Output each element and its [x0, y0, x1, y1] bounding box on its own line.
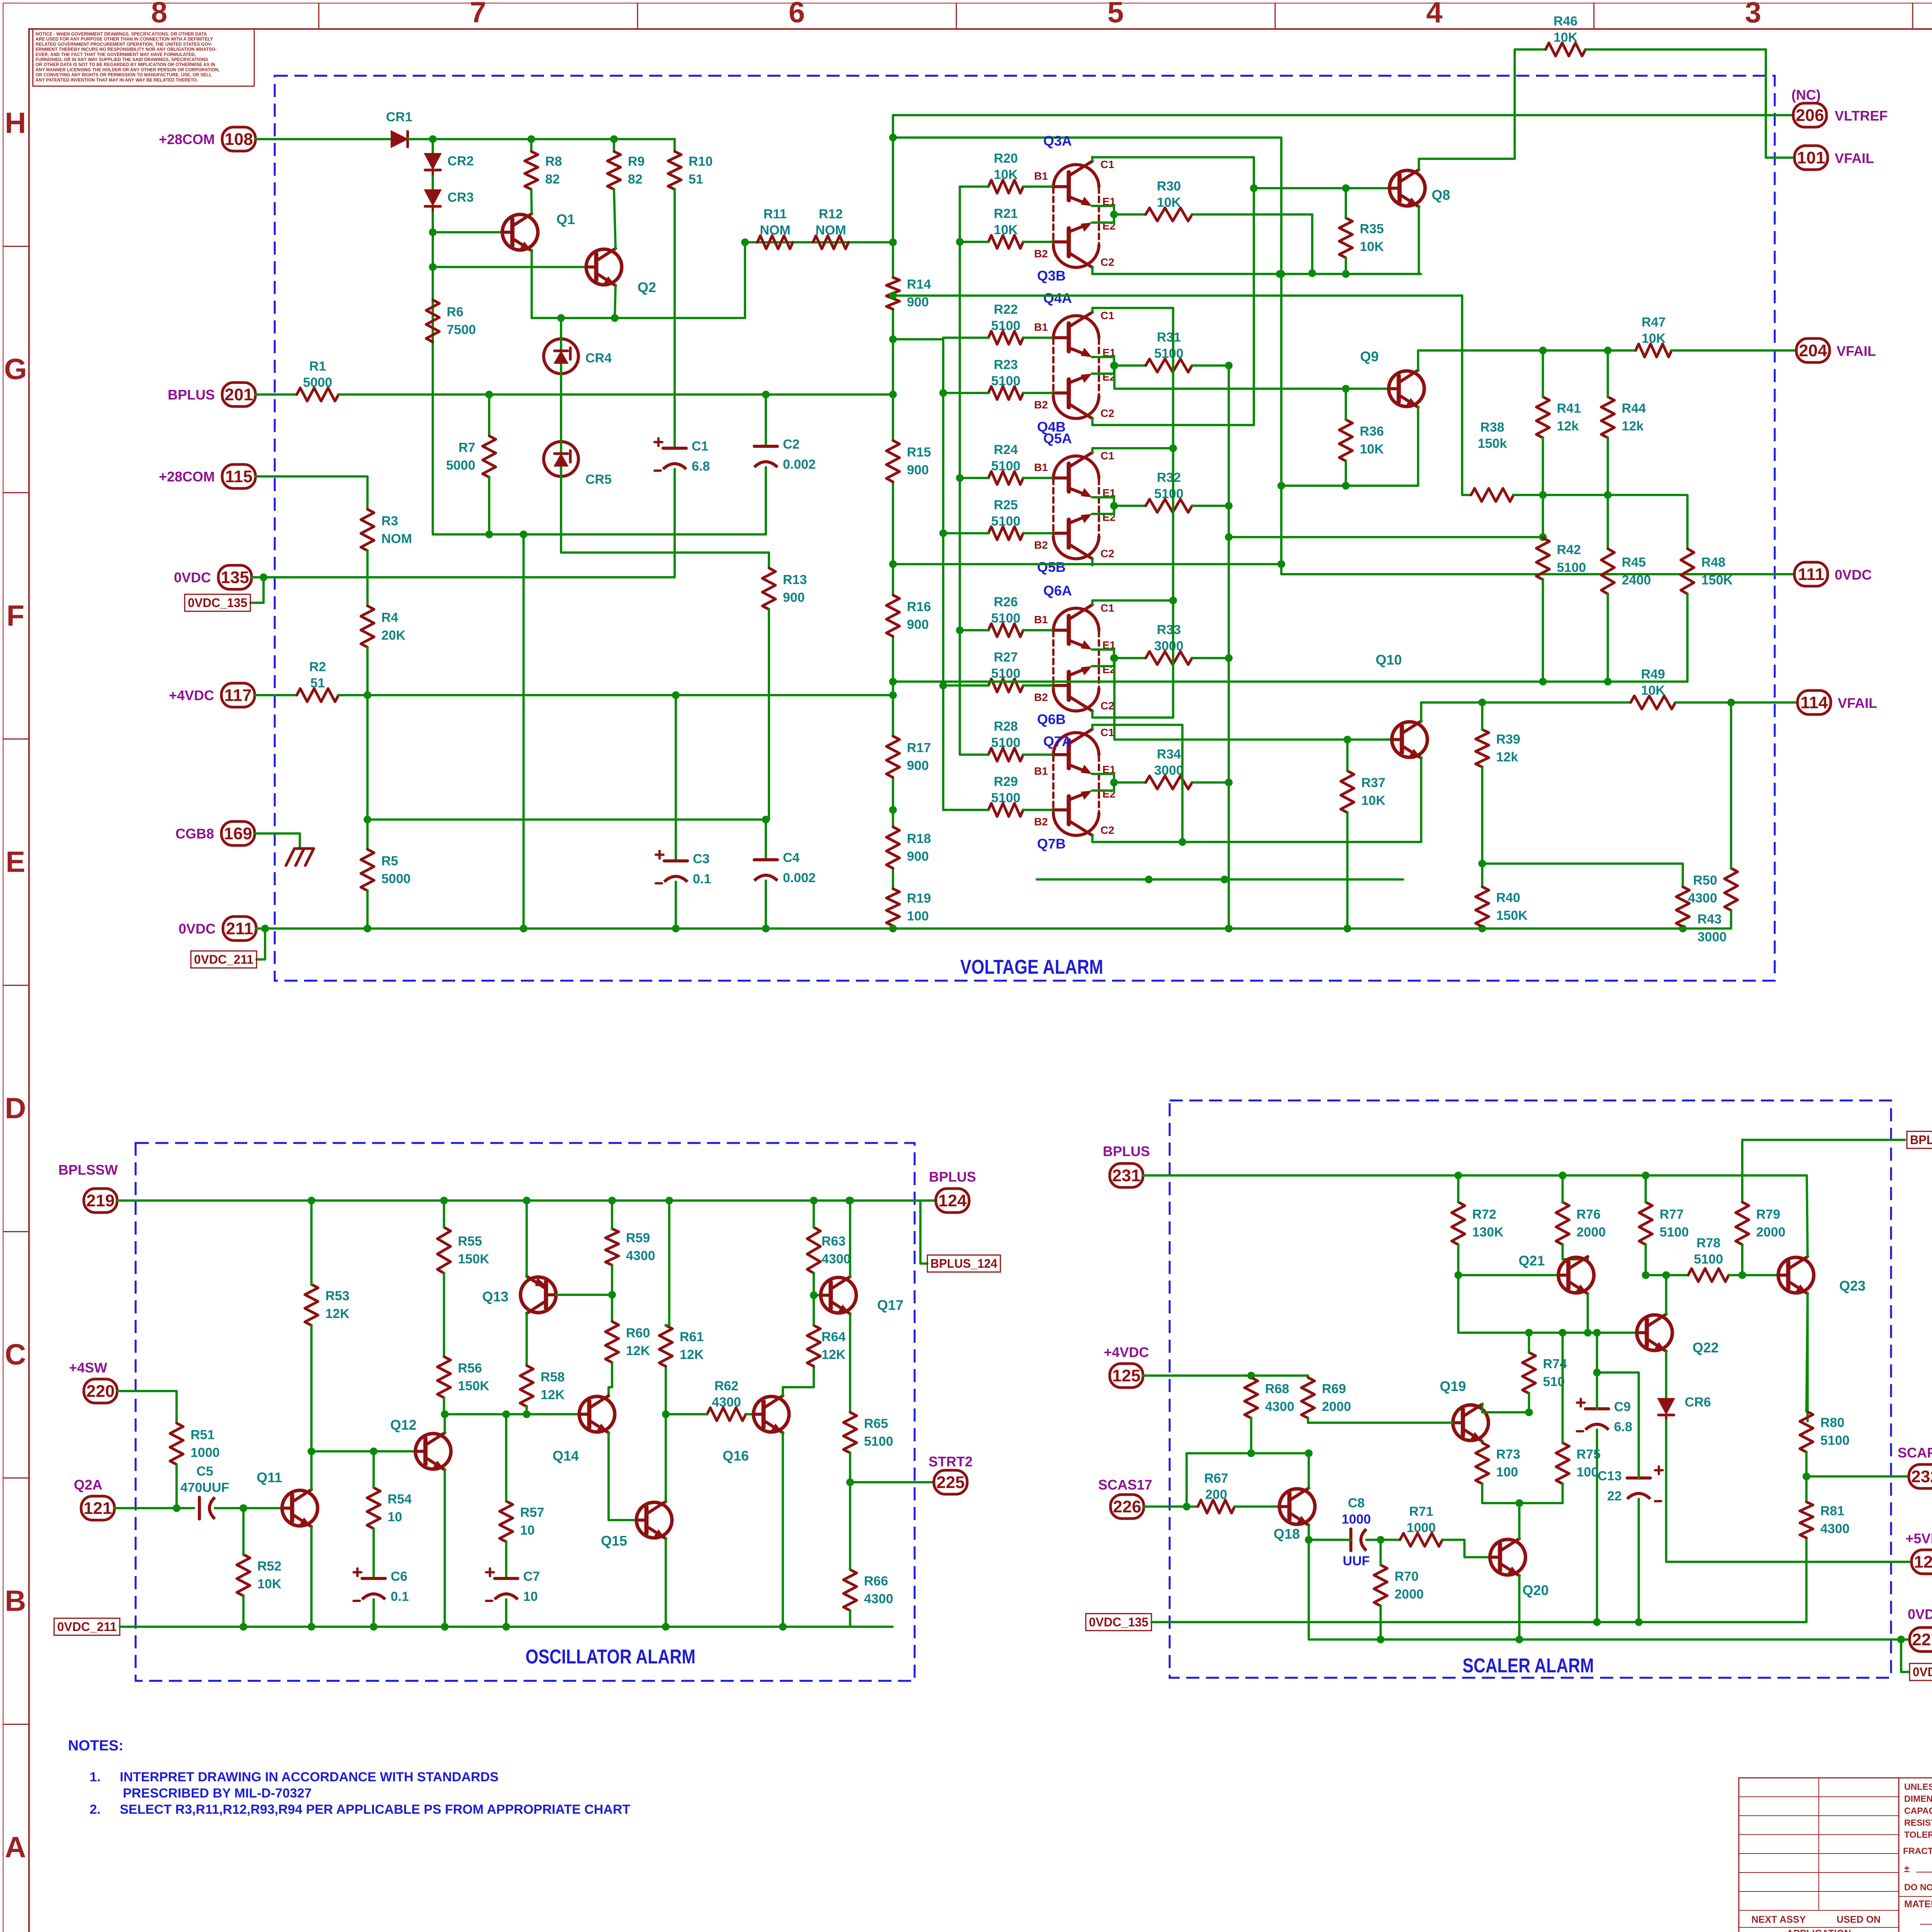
resistor R34 — [1146, 747, 1192, 789]
wire — [893, 338, 943, 340]
svg-text:R39: R39 — [1496, 732, 1520, 747]
junction — [364, 816, 371, 823]
svg-text:2000: 2000 — [1577, 1225, 1606, 1240]
wire — [1607, 350, 1609, 397]
transistor Q9 — [1360, 349, 1424, 407]
junction — [485, 531, 493, 538]
wire — [1023, 809, 1052, 811]
junction — [1454, 1271, 1462, 1279]
junction — [1277, 560, 1285, 568]
wire — [1345, 188, 1347, 218]
resistor R47 — [1636, 315, 1672, 357]
wire — [893, 136, 1281, 139]
connector pad 114 — [1798, 690, 1831, 714]
svg-text:OR CONVEYING ANY RIGHTS OR PER: OR CONVEYING ANY RIGHTS OR PERMISSION TO… — [36, 73, 212, 78]
wire — [1563, 1245, 1588, 1259]
svg-text:51: 51 — [310, 676, 325, 690]
svg-text:4300: 4300 — [1265, 1400, 1294, 1414]
svg-text:211: 211 — [226, 919, 253, 938]
junction — [502, 1410, 510, 1418]
svg-text:82: 82 — [545, 172, 560, 187]
svg-text:CR5: CR5 — [585, 472, 612, 487]
wire — [1023, 337, 1052, 339]
svg-text:101: 101 — [1797, 148, 1825, 167]
wire — [920, 1201, 927, 1264]
wire — [813, 1295, 815, 1325]
wire — [444, 1414, 446, 1433]
svg-text:B: B — [5, 1585, 26, 1617]
junction — [1344, 925, 1351, 932]
junction — [1525, 1329, 1533, 1337]
svg-text:C5: C5 — [196, 1464, 213, 1479]
wire — [444, 1470, 446, 1627]
junction — [810, 1197, 818, 1204]
svg-text:Q20: Q20 — [1522, 1582, 1549, 1598]
resistor R59 — [605, 1229, 655, 1265]
junction — [1247, 1372, 1255, 1379]
junction — [1604, 678, 1612, 685]
svg-text:Q2A: Q2A — [74, 1477, 102, 1493]
junction — [939, 389, 947, 397]
svg-text:BPLSSW: BPLSSW — [58, 1162, 118, 1178]
wire — [1114, 366, 1389, 389]
svg-text:12K: 12K — [680, 1347, 704, 1362]
connector pad 204 — [1796, 338, 1830, 362]
svg-text:12K: 12K — [626, 1344, 650, 1358]
svg-text:2000: 2000 — [1395, 1587, 1424, 1602]
svg-text:Q22: Q22 — [1692, 1340, 1719, 1355]
resistor R39 — [1476, 730, 1520, 767]
svg-text:5000: 5000 — [446, 458, 475, 473]
resistor R81 — [1800, 1502, 1850, 1538]
wire — [1587, 1294, 1589, 1333]
wire — [1092, 506, 1114, 514]
wire — [1308, 1453, 1310, 1488]
svg-text:R17: R17 — [907, 741, 931, 755]
wire — [1151, 1621, 1806, 1623]
svg-text:Q21: Q21 — [1519, 1253, 1545, 1269]
svg-text:R68: R68 — [1265, 1382, 1289, 1396]
junction — [889, 292, 897, 299]
resistor R38 — [1471, 420, 1514, 502]
zener diode CR5 — [544, 442, 612, 487]
wire — [960, 477, 988, 479]
svg-text:Q13: Q13 — [482, 1289, 509, 1304]
wire — [1666, 1420, 1911, 1562]
junction — [429, 135, 437, 143]
svg-text:232: 232 — [1911, 1467, 1932, 1486]
svg-text:10K: 10K — [994, 223, 1018, 237]
resistor R11 — [757, 207, 793, 249]
svg-text:R30: R30 — [1157, 179, 1181, 194]
wire — [310, 1201, 313, 1284]
wire — [746, 1413, 753, 1415]
resistor R51 — [170, 1423, 220, 1464]
wire — [1192, 781, 1229, 784]
wire — [1420, 757, 1422, 842]
junction — [1593, 1369, 1601, 1376]
svg-text:C2: C2 — [1100, 700, 1114, 712]
svg-text:INTERPRET DRAWING IN ACCORDANC: INTERPRET DRAWING IN ACCORDANCE WITH STA… — [120, 1770, 498, 1784]
junction — [779, 1623, 787, 1631]
wire — [408, 138, 675, 140]
svg-text:5100: 5100 — [1154, 486, 1184, 501]
capacitor C13 — [1598, 1469, 1650, 1503]
svg-text:Q3B: Q3B — [1037, 268, 1066, 284]
svg-text:Q6A: Q6A — [1043, 583, 1072, 599]
junction — [1247, 1449, 1255, 1457]
svg-text:C8: C8 — [1348, 1496, 1364, 1510]
transistor Q7A/Q7B dual — [1034, 726, 1116, 852]
resistor R77 — [1639, 1202, 1689, 1245]
diode CR6 — [1658, 1395, 1711, 1420]
wire — [1638, 1499, 1640, 1622]
resistor R56 — [437, 1357, 490, 1398]
junction — [1525, 1408, 1533, 1416]
connector pad 125 — [1110, 1364, 1143, 1388]
resistor R60 — [605, 1321, 650, 1362]
svg-text:1000: 1000 — [1342, 1512, 1371, 1527]
svg-text:900: 900 — [907, 849, 929, 864]
svg-text:219: 219 — [86, 1191, 114, 1210]
resistor R46 — [1546, 14, 1585, 56]
transistor Q3A/Q3B dual — [1034, 133, 1116, 284]
resistor R27 — [988, 650, 1023, 692]
wire — [1462, 296, 1471, 495]
svg-text:R31: R31 — [1157, 330, 1181, 345]
junction — [741, 238, 749, 246]
svg-text:Q15: Q15 — [601, 1533, 627, 1549]
svg-text:20K: 20K — [381, 628, 406, 643]
svg-text:R21: R21 — [994, 206, 1018, 221]
wire — [1023, 753, 1052, 756]
wire — [673, 139, 676, 151]
wire — [372, 1599, 375, 1627]
svg-text:5100: 5100 — [991, 735, 1020, 750]
junction — [1145, 876, 1153, 883]
wire — [1665, 1275, 1667, 1314]
wire — [1092, 774, 1114, 782]
junction — [520, 531, 527, 538]
junction — [364, 691, 371, 699]
transistor Q19 — [1440, 1378, 1488, 1441]
wire — [673, 189, 676, 448]
svg-text:USED ON: USED ON — [1837, 1914, 1881, 1925]
junction — [260, 573, 267, 581]
wire — [1806, 1294, 1809, 1421]
wire — [893, 680, 1687, 683]
wire — [1528, 1393, 1530, 1412]
connector pad 211 — [179, 917, 256, 940]
svg-text:10K: 10K — [1157, 195, 1181, 210]
junction — [1604, 347, 1612, 354]
junction — [1478, 925, 1486, 932]
svg-text:0VDC_211: 0VDC_211 — [194, 952, 253, 966]
svg-text:R23: R23 — [994, 357, 1018, 372]
resistor R23 — [988, 357, 1023, 400]
VOLTAGE ALARM dashed box — [275, 76, 1775, 981]
svg-text:4300: 4300 — [626, 1248, 655, 1263]
wire — [1482, 1484, 1563, 1503]
wire — [242, 1508, 245, 1554]
svg-text:(NC): (NC) — [1791, 87, 1821, 103]
wire — [849, 1453, 851, 1482]
wire — [1091, 711, 1094, 718]
junction — [1179, 838, 1186, 846]
wire — [1309, 1539, 1351, 1541]
svg-text:900: 900 — [907, 295, 929, 310]
svg-text:EVER; AND THE FACT THAT THE GO: EVER; AND THE FACT THAT THE GOVERNMENT M… — [36, 53, 196, 57]
junction — [665, 1197, 673, 1204]
svg-text:R22: R22 — [994, 302, 1018, 317]
svg-text:R10: R10 — [689, 154, 713, 169]
svg-text:R57: R57 — [520, 1505, 544, 1520]
svg-text:R3: R3 — [381, 514, 398, 529]
svg-text:Q5A: Q5A — [1043, 430, 1072, 446]
wire — [1092, 307, 1173, 309]
wire — [615, 286, 616, 318]
svg-text:D: D — [5, 1092, 26, 1125]
wire — [1023, 241, 1052, 243]
wire — [1518, 1503, 1520, 1539]
svg-text:R75: R75 — [1577, 1447, 1600, 1462]
svg-text:R62: R62 — [714, 1379, 738, 1393]
connector pad 117 — [169, 683, 255, 707]
svg-text:R77: R77 — [1660, 1207, 1684, 1222]
resistor R52 — [237, 1554, 282, 1596]
svg-text:12K: 12K — [821, 1347, 846, 1362]
junction — [1515, 1499, 1523, 1507]
wire — [765, 881, 767, 929]
wire — [1561, 1333, 1564, 1443]
svg-text:201: 201 — [224, 385, 253, 404]
junction — [1679, 925, 1687, 932]
junction — [308, 1447, 315, 1455]
svg-text:121: 121 — [83, 1499, 112, 1518]
svg-text:4300: 4300 — [864, 1592, 893, 1606]
svg-text:NOM: NOM — [815, 223, 846, 238]
wire — [1675, 701, 1797, 704]
SCALER ALARM dashed box — [1170, 1100, 1891, 1678]
svg-text:R18: R18 — [907, 832, 931, 846]
wire — [960, 187, 988, 755]
wire — [257, 929, 265, 959]
wire — [1481, 927, 1483, 929]
junction — [1277, 482, 1285, 490]
svg-text:+4SW: +4SW — [69, 1360, 107, 1376]
junction — [1225, 533, 1233, 541]
junction — [1183, 1503, 1190, 1510]
svg-text:10K: 10K — [1361, 793, 1386, 808]
svg-text:R73: R73 — [1496, 1447, 1520, 1462]
svg-text:+28COM: +28COM — [159, 469, 215, 485]
junction — [846, 1197, 854, 1204]
junction — [429, 228, 437, 236]
resistor R74 — [1522, 1352, 1567, 1393]
wire — [1514, 495, 1687, 549]
svg-text:CAPACITOR VALUES ARE IN uF: CAPACITOR VALUES ARE IN uF — [1904, 1806, 1932, 1816]
resistor R70 — [1374, 1565, 1424, 1606]
junction — [308, 1197, 315, 1204]
wire — [1528, 1333, 1530, 1352]
junction — [429, 263, 437, 271]
resistor R25 — [988, 498, 1023, 540]
svg-text:200: 200 — [1205, 1487, 1227, 1502]
svg-text:10: 10 — [523, 1589, 538, 1604]
svg-text:150k: 150k — [1478, 436, 1507, 451]
svg-text:C7: C7 — [523, 1569, 540, 1584]
junction — [1277, 270, 1285, 278]
wire — [1114, 213, 1146, 216]
wire — [892, 482, 894, 595]
resistor R49 — [1631, 667, 1675, 709]
resistor R57 — [500, 1501, 544, 1542]
wire — [1457, 1245, 1459, 1333]
wire — [1607, 594, 1609, 682]
svg-text:BPLUS: BPLUS — [929, 1169, 976, 1185]
wire — [611, 1201, 613, 1229]
global label 0VDC_135 — [185, 594, 250, 611]
svg-text:B2: B2 — [1034, 399, 1048, 411]
svg-text:150K: 150K — [458, 1379, 490, 1393]
svg-text:UNLESS OTHERWISE SPECIFIED: UNLESS OTHERWISE SPECIFIED — [1904, 1782, 1932, 1792]
global label 0VDC_135 — [1086, 1614, 1151, 1631]
svg-text:G: G — [4, 353, 27, 386]
junction — [1593, 1618, 1601, 1626]
svg-text:Q17: Q17 — [877, 1297, 903, 1313]
svg-text:R38: R38 — [1480, 420, 1504, 435]
wire — [1144, 1505, 1198, 1508]
svg-text:Q6B: Q6B — [1037, 711, 1066, 727]
resistor R17 — [886, 736, 931, 777]
svg-text:0.1: 0.1 — [391, 1589, 409, 1604]
svg-text:CR3: CR3 — [447, 190, 474, 205]
wire — [765, 467, 767, 534]
wire — [943, 532, 988, 534]
wire — [338, 694, 893, 696]
svg-text:82: 82 — [628, 172, 643, 187]
resistor R19 — [886, 889, 931, 926]
junction — [1342, 270, 1350, 278]
svg-text:B2: B2 — [1034, 539, 1048, 551]
svg-text:128: 128 — [1914, 1553, 1932, 1571]
resistor R73 — [1476, 1443, 1520, 1484]
junction — [956, 626, 964, 634]
transistor Q12 — [390, 1417, 451, 1470]
wire — [1481, 767, 1483, 887]
capacitor C6 — [354, 1568, 409, 1604]
wire — [783, 1366, 814, 1396]
svg-text:7: 7 — [470, 0, 486, 29]
wire — [765, 395, 767, 446]
svg-text:C: C — [5, 1338, 26, 1371]
wire — [1542, 438, 1544, 538]
svg-text:0VDC: 0VDC — [1835, 567, 1872, 583]
wire — [1686, 594, 1689, 682]
wire — [256, 927, 1731, 930]
svg-text:5100: 5100 — [864, 1434, 893, 1449]
svg-text:R55: R55 — [458, 1234, 482, 1249]
junction — [889, 391, 897, 398]
wire — [120, 1626, 893, 1628]
svg-text:231: 231 — [1112, 1166, 1140, 1185]
svg-text:NEXT ASSY: NEXT ASSY — [1752, 1914, 1806, 1925]
resistor R8 — [525, 151, 562, 189]
junction — [1305, 1449, 1313, 1457]
svg-text:Q10: Q10 — [1376, 652, 1402, 668]
wire — [372, 1529, 375, 1578]
resistor R18 — [886, 827, 931, 868]
junction — [1377, 1636, 1384, 1643]
wire — [665, 1366, 667, 1414]
wire — [242, 1596, 245, 1627]
connector pad 124 — [936, 1189, 969, 1213]
svg-text:OSCILLATOR ALARM: OSCILLATOR ALARM — [526, 1646, 696, 1668]
wire — [432, 139, 434, 154]
junction — [441, 1410, 449, 1418]
svg-text:4: 4 — [1426, 0, 1442, 29]
junction — [889, 806, 897, 814]
svg-text:R33: R33 — [1157, 622, 1181, 637]
resistor R61 — [659, 1325, 704, 1366]
connector pad 101 — [1794, 146, 1828, 170]
resistor R65 — [844, 1412, 893, 1453]
svg-text:R80: R80 — [1820, 1415, 1844, 1430]
svg-text:R35: R35 — [1360, 222, 1384, 236]
svg-text:VLTREF: VLTREF — [1835, 108, 1888, 124]
wire — [1346, 740, 1349, 771]
junction — [956, 238, 964, 246]
wire — [768, 609, 770, 820]
resistor R21 — [988, 206, 1023, 248]
diode CR3 — [425, 190, 474, 212]
svg-text:900: 900 — [907, 617, 929, 632]
wire — [1092, 366, 1114, 374]
wire — [1092, 841, 1420, 843]
wire — [1481, 702, 1483, 730]
junction — [527, 135, 535, 143]
wire — [765, 820, 767, 860]
svg-text:5100: 5100 — [1660, 1225, 1689, 1240]
svg-text:BPLUS_124: BPLUS_124 — [930, 1257, 997, 1270]
junction — [485, 391, 493, 398]
junction — [1342, 184, 1350, 192]
wire — [366, 647, 369, 849]
svg-text:0.002: 0.002 — [783, 871, 816, 885]
connector pad 206 — [1793, 103, 1827, 127]
svg-text:0VDC: 0VDC — [1908, 1606, 1932, 1622]
junction — [672, 691, 680, 699]
svg-text:DO NOT SCALE THIS DRAWING: DO NOT SCALE THIS DRAWING — [1904, 1882, 1932, 1892]
svg-text:C1: C1 — [1100, 158, 1114, 170]
wire — [1092, 447, 1173, 449]
wire — [1379, 1606, 1382, 1639]
resistor R44 — [1601, 397, 1646, 438]
wire — [1091, 448, 1094, 452]
resistor R30 — [1146, 179, 1192, 221]
global label BPLUS_124 — [927, 1255, 1000, 1272]
junction — [1342, 385, 1350, 393]
junction — [1344, 736, 1351, 743]
svg-text:UUF: UUF — [1343, 1554, 1370, 1568]
wire — [943, 684, 988, 687]
wire — [1192, 657, 1229, 659]
svg-text:Q12: Q12 — [390, 1417, 417, 1433]
global label 0VDC_227 — [1910, 1663, 1932, 1680]
svg-text:C9: C9 — [1614, 1400, 1631, 1414]
junction — [939, 682, 947, 689]
wire — [1742, 1139, 1905, 1141]
